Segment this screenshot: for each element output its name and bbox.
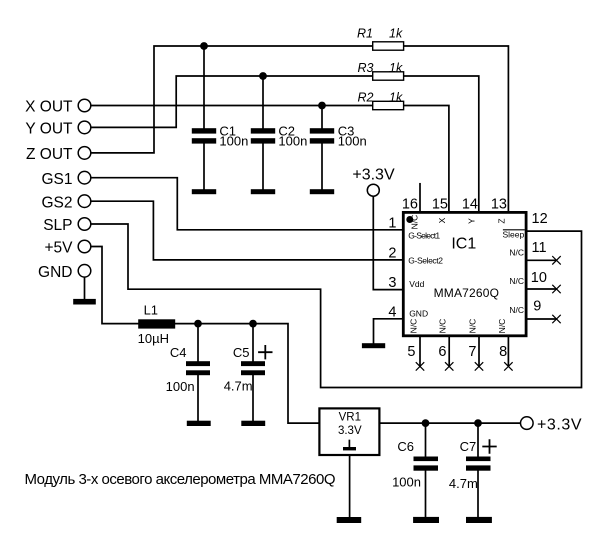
svg-text:100n: 100n <box>219 134 248 149</box>
svg-text:L1: L1 <box>144 303 158 318</box>
svg-text:1k: 1k <box>389 26 403 40</box>
svg-text:GS1: GS1 <box>41 171 72 188</box>
svg-text:7: 7 <box>468 344 476 360</box>
svg-text:9: 9 <box>533 299 541 315</box>
svg-text:100n: 100n <box>338 134 367 149</box>
svg-text:G-Select1: G-Select1 <box>408 231 440 241</box>
svg-text:G-Select2: G-Select2 <box>408 256 443 266</box>
svg-text:4: 4 <box>388 305 396 321</box>
svg-text:SLP: SLP <box>43 217 72 234</box>
svg-text:N/C: N/C <box>509 276 524 286</box>
svg-text:R2: R2 <box>358 91 374 105</box>
svg-text:10: 10 <box>531 270 547 286</box>
svg-text:2: 2 <box>388 245 396 261</box>
svg-text:4.7m: 4.7m <box>224 379 253 394</box>
svg-text:C7: C7 <box>460 439 477 454</box>
svg-text:C4: C4 <box>170 345 187 360</box>
svg-text:N/C: N/C <box>410 215 420 230</box>
svg-text:16: 16 <box>402 197 418 213</box>
svg-text:IC1: IC1 <box>451 235 476 252</box>
svg-text:GND: GND <box>409 309 428 319</box>
svg-text:VR1: VR1 <box>339 411 361 423</box>
svg-text:14: 14 <box>462 197 478 213</box>
svg-text:100n: 100n <box>392 475 421 490</box>
svg-text:N/C: N/C <box>409 319 419 334</box>
svg-text:15: 15 <box>432 197 448 213</box>
svg-text:8: 8 <box>499 344 507 360</box>
svg-text:+3.3V: +3.3V <box>537 416 582 433</box>
svg-text:6: 6 <box>438 344 446 360</box>
svg-text:N/C: N/C <box>509 247 524 257</box>
svg-text:C5: C5 <box>233 345 250 360</box>
svg-text:X: X <box>437 217 447 223</box>
svg-text:Vdd: Vdd <box>409 279 424 289</box>
svg-text:Y: Y <box>466 218 476 224</box>
svg-text:+5V: +5V <box>44 240 73 257</box>
svg-text:1k: 1k <box>389 91 403 105</box>
svg-text:Модуль 3-х осевого акселеромет: Модуль 3-х осевого акселерометра MMA7260… <box>25 471 336 488</box>
svg-text:C6: C6 <box>397 439 414 454</box>
svg-text:3.3V: 3.3V <box>338 425 362 437</box>
svg-text:+3.3V: +3.3V <box>352 167 395 184</box>
svg-text:X OUT: X OUT <box>25 99 73 116</box>
svg-text:12: 12 <box>532 211 548 227</box>
svg-text:100n: 100n <box>278 134 307 149</box>
svg-text:3: 3 <box>388 275 396 291</box>
svg-text:10µH: 10µH <box>138 331 169 346</box>
svg-text:N/C: N/C <box>497 319 507 334</box>
svg-text:1k: 1k <box>389 61 403 75</box>
svg-text:4.7m: 4.7m <box>449 476 478 491</box>
svg-text:R3: R3 <box>358 61 374 75</box>
svg-text:R1: R1 <box>357 26 373 40</box>
svg-text:100n: 100n <box>166 379 195 394</box>
svg-text:N/C: N/C <box>438 319 448 334</box>
svg-text:5: 5 <box>407 344 415 360</box>
svg-text:Y OUT: Y OUT <box>25 121 73 138</box>
svg-text:1: 1 <box>388 216 396 232</box>
svg-text:MMA7260Q: MMA7260Q <box>434 286 499 300</box>
svg-text:13: 13 <box>491 197 507 213</box>
svg-text:Sleep: Sleep <box>502 230 524 240</box>
svg-text:GND: GND <box>38 264 72 281</box>
svg-text:GS2: GS2 <box>41 194 72 211</box>
svg-text:11: 11 <box>532 240 547 256</box>
svg-text:N/C: N/C <box>509 305 524 315</box>
svg-text:Z OUT: Z OUT <box>26 146 73 163</box>
svg-text:Z: Z <box>496 218 506 223</box>
svg-text:N/C: N/C <box>468 319 478 334</box>
